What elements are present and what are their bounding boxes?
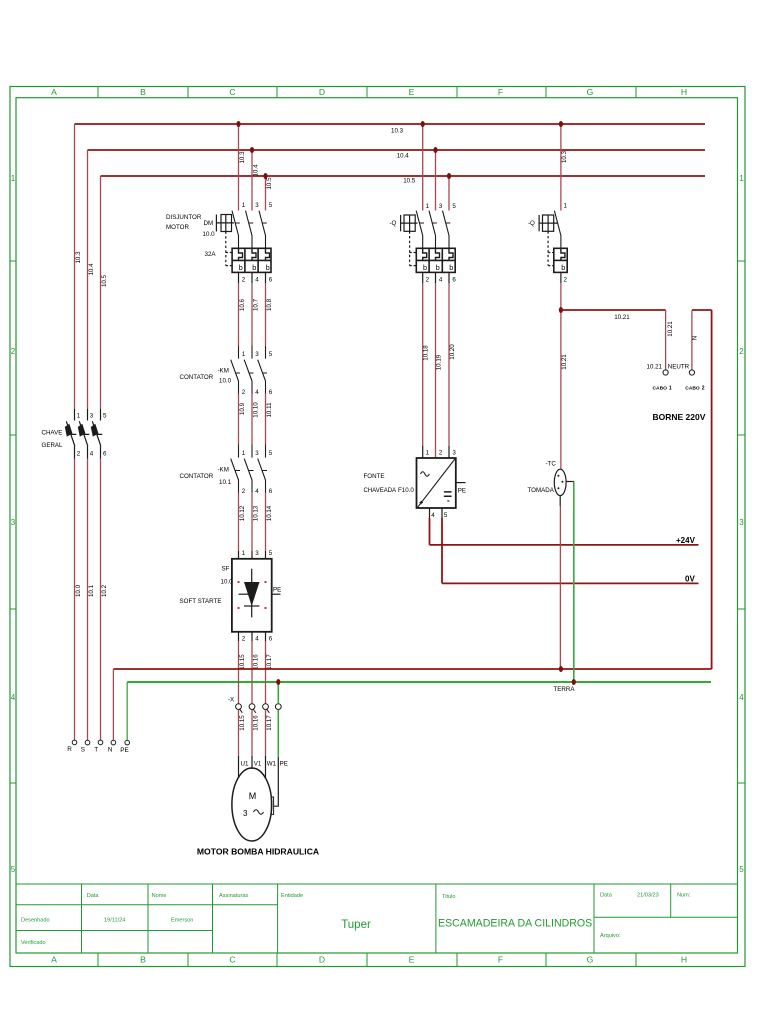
svg-text:M: M [249,791,257,801]
svg-text:-TC: -TC [546,461,557,468]
svg-text:0V: 0V [685,575,695,584]
svg-text:ESCAMADEIRA DA CILINDROS: ESCAMADEIRA DA CILINDROS [438,918,592,930]
svg-text:21/03/23: 21/03/23 [637,893,659,899]
power supply PE stub [456,482,466,484]
svg-text:10.13: 10.13 [253,505,260,521]
wire bus 10.3 [75,123,706,125]
svg-text:10.16: 10.16 [253,654,260,670]
breaker Q1 magnetic trip symbols [423,248,453,260]
svg-text:NEUTR: NEUTR [668,364,690,371]
svg-text:E: E [409,87,415,97]
soft starter SF output stubs [239,632,266,641]
breaker Q1 poles top wires [423,124,449,211]
junction PE-tomada [572,679,576,685]
svg-text:10.14: 10.14 [266,505,273,521]
terminal T [98,740,103,745]
svg-text:2: 2 [11,347,16,356]
svg-text:10.0: 10.0 [75,584,82,597]
label FONTE CHAVEADA F10.0 [364,473,415,494]
pin numbers SF bottom [242,636,273,643]
svg-text:5: 5 [269,202,273,209]
breaker Q2 handle symbol [539,215,558,266]
wire NEUTR drop [665,310,667,370]
soft starter SF thyristor symbol [239,569,260,618]
power supply F10.0 input stubs [423,446,449,458]
svg-text:10.4: 10.4 [397,153,410,160]
svg-text:G: G [587,87,594,97]
socket TC bottom stub [559,496,561,506]
svg-text:2: 2 [426,277,430,284]
label CABO 1 [653,386,672,392]
svg-text:1: 1 [564,203,568,210]
svg-text:PE: PE [280,761,288,768]
svg-text:10.5: 10.5 [266,177,273,190]
svg-text:W1: W1 [267,761,277,768]
pin numbers fonte top [426,450,457,457]
svg-text:TERRA: TERRA [554,686,576,693]
svg-text:SOFT STARTE: SOFT STARTE [180,598,222,605]
svg-text:Arquivo:: Arquivo: [600,933,621,939]
breaker DM thermal symbols [239,263,270,272]
motor M1 body [232,768,272,841]
label CONTATOR -KM 10.0 [180,368,232,385]
svg-text:C: C [229,955,235,965]
svg-text:10.5: 10.5 [403,178,416,185]
svg-text:b: b [252,263,256,272]
svg-text:Data: Data [600,893,613,899]
svg-text:b: b [449,263,453,272]
svg-text:10.16: 10.16 [253,715,260,731]
junction tomada-N [559,666,563,672]
svg-text:10.5: 10.5 [101,274,108,287]
svg-text:4: 4 [431,512,435,519]
terminal letters R S T N PE [67,746,128,754]
svg-text:T: T [94,747,98,754]
svg-text:3: 3 [11,518,16,527]
motor M1 PE tab [271,797,273,814]
label 10.21 NEUTR [647,364,690,371]
svg-text:DM: DM [204,220,214,227]
svg-text:1: 1 [77,413,81,420]
svg-text:Assinaturas: Assinaturas [219,893,248,899]
soft starter SF connection marks [238,581,267,609]
wire bus 10.4 [88,149,706,151]
svg-text:2: 2 [439,450,443,457]
junction bus1-DM [236,121,240,127]
svg-text:10.3: 10.3 [391,128,404,135]
pin numbers Q1 top [426,203,457,210]
svg-text:Nome: Nome [152,893,167,899]
power supply F10.0 box [417,458,456,508]
svg-text:D: D [319,955,325,965]
wire PE drop to terminal [126,682,128,740]
terminal X2 [249,704,256,713]
terminal X4 PE [275,704,281,710]
breaker DM handle symbol [216,215,234,266]
svg-text:b: b [266,263,270,272]
junction bus2-Q1 [433,147,437,153]
terminal PE [125,740,130,745]
breaker Q1 bottom stubs [423,272,449,283]
svg-text:U1: U1 [241,761,249,768]
svg-text:H: H [681,955,687,965]
svg-text:10.20: 10.20 [449,344,456,360]
wire phase S vertical [87,150,89,740]
breaker Q2 overload box [554,248,567,272]
svg-text:4: 4 [255,389,259,396]
terminal CABO1 [663,370,668,375]
svg-text:5: 5 [452,203,456,210]
svg-text:5: 5 [269,351,273,358]
svg-text:10.0: 10.0 [219,378,232,385]
wire phase R vertical [74,124,76,740]
svg-text:1: 1 [11,174,16,183]
svg-text:BORNE 220V: BORNE 220V [653,412,706,422]
svg-text:1: 1 [242,202,246,209]
svg-text:5: 5 [103,413,107,420]
svg-text:D: D [319,87,325,97]
svg-text:Verificado: Verificado [21,940,46,946]
contactor KM2 [231,445,267,493]
terminal N [111,740,116,745]
svg-text:1: 1 [242,450,246,457]
wire PE green riser to motor [277,682,279,757]
terminal R [72,740,77,745]
svg-text:2: 2 [242,389,246,396]
svg-text:3: 3 [255,202,259,209]
svg-text:10.4: 10.4 [253,164,260,177]
pin numbers DM top [242,202,273,209]
svg-text:1: 1 [426,450,430,457]
svg-text:10.19: 10.19 [436,354,443,370]
svg-text:10.12: 10.12 [239,505,246,521]
svg-text:10.3: 10.3 [239,151,246,164]
svg-text:B: B [140,87,146,97]
svg-text:3: 3 [90,413,94,420]
svg-text:PE: PE [273,587,281,594]
svg-text:b: b [423,263,427,272]
junction 10.21 [559,307,563,313]
label SF 10.0 SOFT STARTE [180,566,234,606]
svg-text:1: 1 [242,351,246,358]
junction bus2-DM [250,147,254,153]
terminal S [85,740,90,745]
svg-text:5: 5 [739,865,744,874]
breaker Q2 bottom stub [560,272,562,283]
svg-text:F: F [498,87,503,97]
wire KM1 to KM2 [239,394,266,445]
svg-text:Data: Data [87,893,100,899]
breaker DM overload box [232,248,271,272]
svg-text:Tuper: Tuper [341,919,371,931]
svg-text:10.11: 10.11 [266,402,273,418]
wire SF to terminal X [239,641,266,704]
svg-text:F10.0: F10.0 [398,487,414,494]
wire CABO2 riser [691,311,693,370]
breaker Q2 contact [554,211,561,249]
svg-text:10.6: 10.6 [239,298,246,311]
svg-text:b: b [561,263,565,272]
breaker Q1 overload box [416,248,455,272]
svg-text:2: 2 [739,347,744,356]
label CABO 2 [685,386,704,392]
frame ruler numbers left [11,174,16,874]
pin numbers KM2 [242,450,273,495]
svg-text:-Q: -Q [390,220,397,227]
svg-text:4: 4 [255,636,259,643]
svg-text:Num:: Num: [677,893,691,899]
breaker Q1 thermal symbols [423,263,453,272]
svg-text:N: N [108,747,113,754]
wire tomada neutral drop [559,506,561,669]
breaker Q1 handle symbol [401,215,418,266]
svg-text:FONTE: FONTE [364,473,385,480]
svg-text:4: 4 [90,451,94,458]
svg-text:A: A [51,955,57,965]
terminal X3 [263,704,270,713]
svg-text:10.2: 10.2 [101,584,108,597]
breaker DM bottom stubs [239,272,266,283]
svg-text:6: 6 [269,277,273,284]
svg-text:6: 6 [269,488,273,495]
junction PE-motor [276,679,280,685]
svg-text:-KM: -KM [218,467,229,474]
svg-text:1: 1 [426,203,430,210]
junction bus1-Q2 [559,121,563,127]
svg-text:4: 4 [255,277,259,284]
switch Q0 chave geral [66,409,102,459]
svg-text:C: C [229,87,235,97]
svg-text:PE: PE [120,747,129,754]
svg-text:2: 2 [564,277,568,284]
wire +24V [430,518,699,545]
svg-text:2: 2 [242,488,246,495]
svg-text:Emerson: Emerson [171,918,193,924]
motor M1 stubs [239,756,279,806]
wire bus 10.5 [101,175,706,177]
junction bus3-Q1 [447,173,451,179]
power supply F10.0 symbols [418,459,455,507]
svg-text:Titulo: Titulo [442,894,455,900]
svg-text:10.15: 10.15 [239,715,246,731]
svg-text:10.1: 10.1 [88,584,95,597]
breaker DM contacts [232,211,267,249]
svg-text:2: 2 [242,277,246,284]
svg-text:5: 5 [444,512,448,519]
svg-text:10.21: 10.21 [614,314,630,321]
pin numbers Q1 bottom [426,277,457,284]
svg-text:2: 2 [77,451,81,458]
svg-text:GERAL: GERAL [42,442,64,449]
svg-text:3: 3 [452,450,456,457]
wire 0V [442,518,699,583]
svg-text:N: N [691,336,698,340]
svg-text:1: 1 [739,174,744,183]
svg-text:E: E [409,955,415,965]
svg-text:19/11/24: 19/11/24 [104,918,125,924]
socket TC ground stub [566,481,574,483]
svg-text:4: 4 [11,693,16,702]
pin numbers chave geral [77,413,107,458]
power supply output stubs [430,508,443,518]
svg-text:Desenhado: Desenhado [21,918,50,924]
svg-text:+24V: +24V [676,536,696,545]
breaker Q2 magnetic trip symbol [561,248,565,260]
svg-text:CONTATOR: CONTATOR [180,473,214,480]
svg-text:3: 3 [243,809,248,818]
svg-text:10.17: 10.17 [266,654,273,670]
svg-text:10.17: 10.17 [266,715,273,731]
svg-text:5: 5 [11,865,16,874]
svg-text:10.4: 10.4 [88,263,95,276]
svg-text:4: 4 [739,693,744,702]
svg-text:10.1: 10.1 [219,479,232,486]
wire DM to KM1 [239,283,266,346]
wire neutral run N [113,668,711,670]
svg-text:V1: V1 [254,761,262,768]
svg-text:2: 2 [702,386,705,392]
motor M1 pin labels [241,761,288,768]
svg-text:10.7: 10.7 [253,298,260,311]
svg-text:4: 4 [439,277,443,284]
breaker Q1 contacts [416,211,450,249]
svg-text:Entidade: Entidade [281,893,303,899]
svg-text:6: 6 [269,636,273,643]
svg-text:-KM: -KM [218,368,229,375]
svg-text:1: 1 [669,386,672,392]
wire N drop to terminal [112,669,114,740]
breaker DM magnetic trip symbols [239,248,270,260]
wire phase T vertical [100,176,102,740]
svg-text:CABO: CABO [685,386,700,392]
svg-text:A: A [51,87,57,97]
svg-text:32A: 32A [205,251,217,258]
wire tomada ground green [573,482,575,683]
svg-text:10.21: 10.21 [561,354,568,370]
wire TERRA PE run [127,681,711,683]
contactor KM1 [231,346,267,394]
soft starter PE stub [272,593,281,595]
motor M1 markings [249,791,257,801]
title block lines [16,884,738,953]
svg-text:3: 3 [739,518,744,527]
svg-text:S: S [81,747,85,754]
wire KM2 to SF [239,493,266,552]
wire 10.21 branch [561,309,666,311]
svg-text:10.21: 10.21 [647,364,663,371]
svg-text:5: 5 [269,450,273,457]
svg-text:10.10: 10.10 [253,402,260,418]
frame ruler letters bottom [51,955,687,965]
svg-text:MOTOR: MOTOR [166,224,189,231]
svg-text:CABO: CABO [653,386,668,392]
wire N jog to right edge [692,310,712,669]
terminal CABO2 [689,370,694,375]
svg-text:10.0: 10.0 [221,579,234,586]
svg-text:-Q: -Q [528,220,535,227]
svg-text:6: 6 [103,451,107,458]
soft starter SF box [232,559,272,632]
svg-text:3: 3 [255,550,259,557]
pin numbers fonte bottom [431,512,448,519]
breaker Q2 top wire [560,124,562,211]
title block labels [21,893,691,947]
svg-text:3: 3 [439,203,443,210]
svg-text:1: 1 [242,550,246,557]
svg-text:G: G [587,955,594,965]
svg-text:2: 2 [242,636,246,643]
svg-text:4: 4 [255,488,259,495]
svg-text:10.3: 10.3 [561,150,568,163]
svg-text:3: 3 [255,351,259,358]
svg-text:10.0: 10.0 [203,231,216,238]
svg-text:5: 5 [269,550,273,557]
svg-text:TOMADA: TOMADA [528,487,555,494]
svg-text:b: b [436,263,440,272]
pin numbers KM1 [242,351,273,396]
label CONTATOR -KM 10.1 [180,467,232,487]
svg-text:10.18: 10.18 [423,345,430,361]
svg-text:6: 6 [269,389,273,396]
svg-text:6: 6 [452,277,456,284]
svg-text:3: 3 [255,450,259,457]
svg-text:H: H [681,87,687,97]
svg-text:B: B [140,955,146,965]
terminal X1 [236,704,243,713]
label CHAVE GERAL [42,430,64,450]
socket TC tomada [554,469,566,495]
svg-text:b: b [239,263,243,272]
svg-text:R: R [67,746,72,753]
svg-text:DISJUNTOR: DISJUNTOR [166,214,202,221]
wire Q2 to tomada [560,283,562,469]
svg-text:F: F [498,955,503,965]
svg-text:PE: PE [458,488,466,495]
svg-text:CHAVE: CHAVE [42,430,63,437]
svg-text:10.9: 10.9 [239,402,246,415]
breaker DM poles top wires [239,124,266,211]
label DISJUNTOR MOTOR DM 10.0 32A [166,214,216,258]
svg-text:10.15: 10.15 [239,654,246,670]
svg-text:MOTOR BOMBA HIDRAULICA: MOTOR BOMBA HIDRAULICA [197,847,319,857]
svg-text:CHAVEADA: CHAVEADA [364,488,397,494]
svg-text:10.21: 10.21 [667,321,674,337]
svg-text:10.3: 10.3 [75,251,82,264]
soft starter SF input stubs [239,551,266,559]
junction bus1-Q1 [421,121,425,127]
frame ruler letters top [51,87,687,97]
wire X to motor [239,710,266,756]
frame ruler numbers right [739,174,744,874]
wire Q1 to fonte [423,283,449,458]
pin numbers DM bottom [242,277,273,284]
svg-text:CONTATOR: CONTATOR [180,374,214,381]
pin numbers SF top [242,550,273,557]
svg-text:-X: -X [228,697,234,704]
svg-text:10.8: 10.8 [266,298,273,311]
svg-text:SF: SF [222,566,230,573]
junction bus3-DM [263,173,267,179]
